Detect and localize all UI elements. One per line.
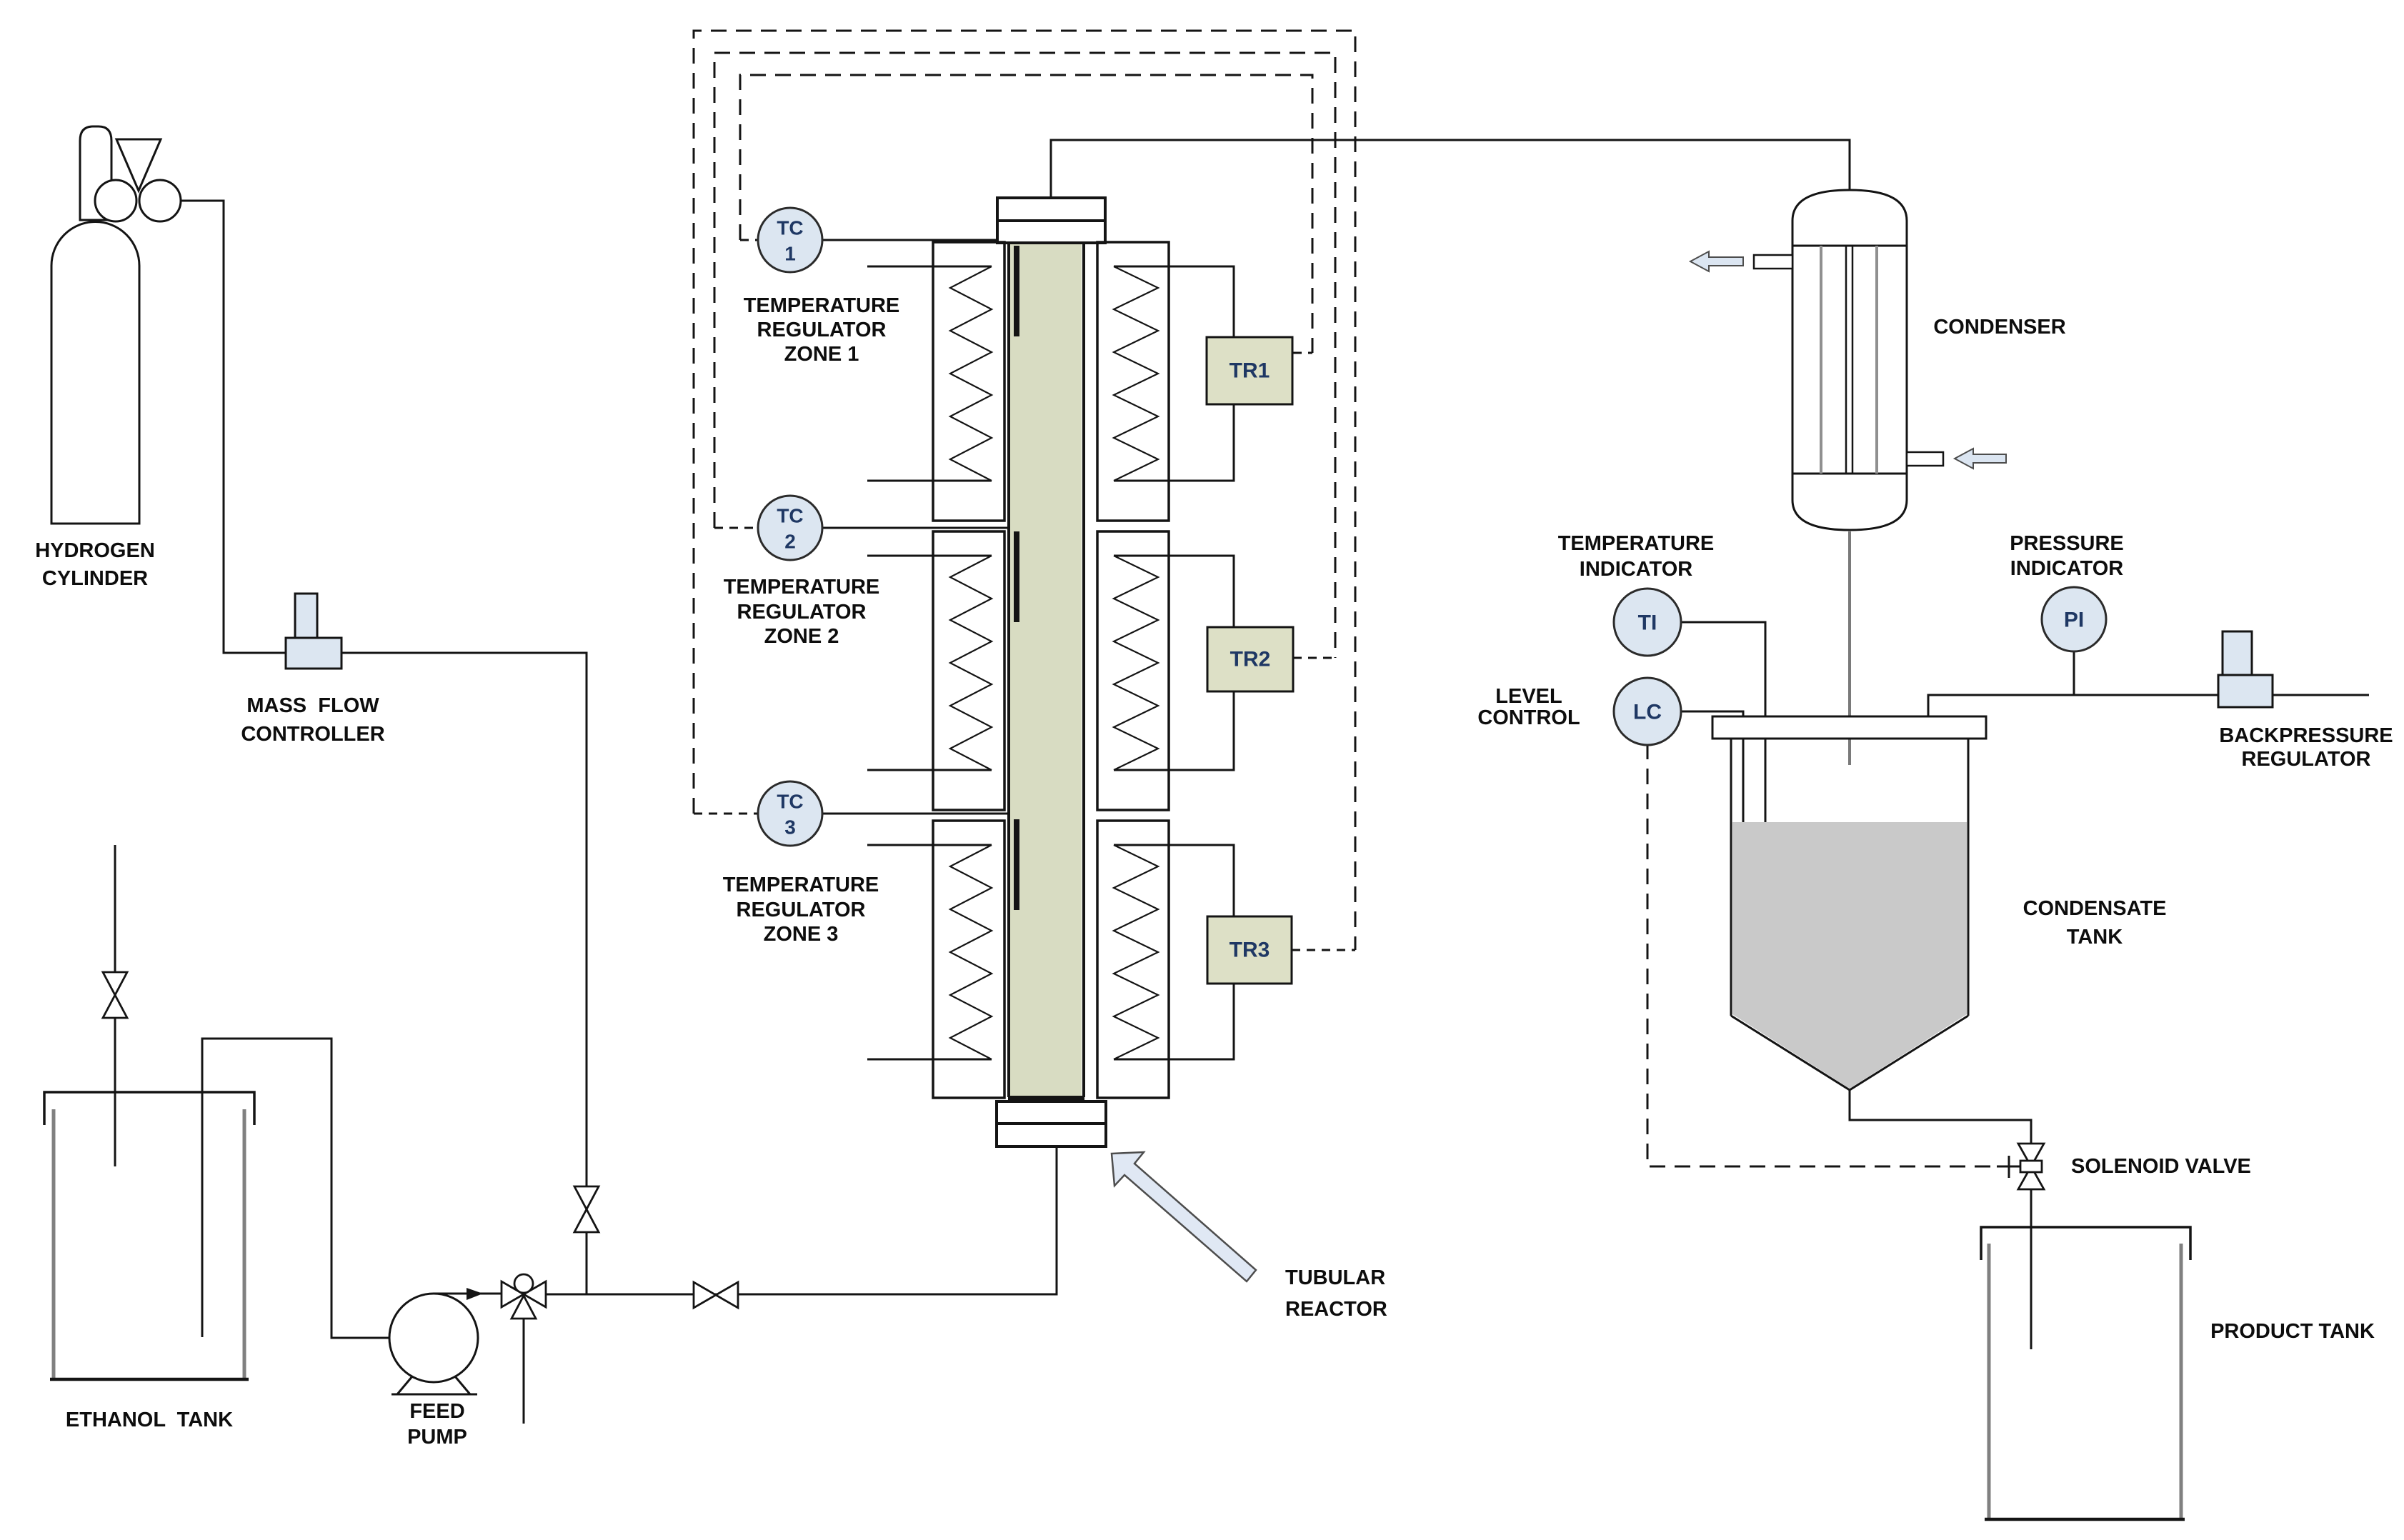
svg-text:PRODUCT TANK: PRODUCT TANK — [2210, 1320, 2375, 1343]
condenser shell — [1792, 190, 1907, 530]
product tank rim — [1981, 1227, 2190, 1260]
svg-text:MASS FLOW: MASS FLOW — [246, 694, 379, 717]
svg-text:TANK: TANK — [2067, 926, 2123, 949]
reactor tube filling (catalyst bed) — [1010, 243, 1082, 1097]
temperature regulator box TR1 — [1207, 337, 1292, 404]
arrowhead pump outlet — [467, 1288, 483, 1300]
svg-text:TC: TC — [777, 791, 803, 813]
condensate tank right wall — [1967, 739, 1970, 1016]
svg-text:PI: PI — [2064, 609, 2084, 632]
wire ethanol tank fill pipe — [114, 845, 116, 1166]
svg-text:LC: LC — [1633, 701, 1662, 724]
dashed stub TC2 — [714, 527, 758, 529]
wire LC dip tube — [1680, 711, 1743, 993]
furnace block zone2 left — [933, 531, 1004, 810]
heater leads zone1 left — [867, 266, 992, 268]
mass flow controller body — [286, 638, 341, 669]
svg-text:TR3: TR3 — [1230, 939, 1270, 962]
svg-text:REACTOR: REACTOR — [1285, 1298, 1387, 1321]
valve on feed line to reactor — [694, 1282, 738, 1308]
temperature regulator box TR3 — [1207, 916, 1292, 984]
condenser tube gray left — [1820, 246, 1822, 474]
wire PI stem — [2073, 651, 2075, 695]
svg-text:CYLINDER: CYLINDER — [42, 567, 148, 590]
svg-text:HYDROGEN: HYDROGEN — [35, 539, 155, 562]
furnace block zone3 left — [933, 821, 1004, 1098]
mass flow controller stem — [295, 594, 317, 638]
svg-text:TR2: TR2 — [1230, 648, 1271, 671]
heater leads zone1 right to TR1 — [1114, 266, 1234, 337]
reactor top cap — [997, 198, 1105, 243]
svg-text:REGULATOR: REGULATOR — [737, 601, 867, 624]
three-way valve top circle — [514, 1274, 533, 1293]
thermocouple circle TC1 — [758, 208, 822, 272]
svg-text:TC: TC — [777, 505, 803, 527]
heater leads zone2 right to TR2 — [1114, 556, 1234, 627]
svg-text:ZONE 1: ZONE 1 — [784, 343, 859, 366]
valve on hydrogen line — [574, 1186, 599, 1232]
svg-text:REGULATOR: REGULATOR — [2242, 748, 2371, 771]
condenser coolant inlet nozzle — [1907, 452, 1943, 466]
condenser tube gray right — [1875, 246, 1878, 474]
svg-text:TC: TC — [777, 217, 803, 239]
wire pump drain below three-way valve — [523, 1319, 525, 1424]
thermocouple circle TC3 — [758, 781, 822, 846]
condensate tank cone — [1731, 1016, 1968, 1090]
furnace block zone3 right — [1097, 821, 1169, 1098]
svg-text:CONDENSER: CONDENSER — [1933, 316, 2065, 339]
svg-text:1: 1 — [784, 243, 796, 265]
heater leads zone3 left — [867, 844, 992, 846]
condensate tank lid — [1712, 716, 1986, 739]
dashed stub TC3 — [694, 813, 758, 815]
svg-text:INDICATOR: INDICATOR — [1580, 558, 1692, 581]
heater leads zone3 right to TR3 — [1114, 845, 1234, 916]
heater coil zone1 right — [1114, 266, 1158, 481]
wire reactor outlet to condenser — [1051, 140, 1850, 198]
svg-text:CONTROLLER: CONTROLLER — [241, 723, 384, 746]
wire three-way valve to reactor inlet — [546, 1146, 1057, 1294]
svg-text:BACKPRESSURE: BACKPRESSURE — [2219, 724, 2393, 747]
dashed control loop box TC3-TR3 (outer) — [694, 31, 1355, 950]
dashed stub TC1 — [740, 239, 758, 241]
wire condenser to condensate tank — [1848, 531, 1851, 765]
wire condensate tank outlet to solenoid valve — [1850, 1090, 2031, 1146]
feed pump base — [391, 1376, 477, 1394]
thermowell zone 2 — [1014, 531, 1019, 622]
three-way valve bottom port — [512, 1296, 536, 1319]
regulator gauge circle right — [139, 180, 181, 221]
cylinder regulator triangle — [116, 139, 161, 191]
dashed stub TR1 — [1293, 352, 1312, 354]
dashed stub TR3 — [1292, 949, 1355, 951]
svg-text:TI: TI — [1638, 611, 1657, 635]
wire TC1 to reactor — [822, 239, 999, 241]
svg-text:REGULATOR: REGULATOR — [757, 319, 887, 341]
dashed line LC to solenoid valve — [1647, 744, 1997, 1166]
product tank right wall — [2180, 1244, 2183, 1518]
backpressure regulator body — [2218, 675, 2273, 707]
heater coil zone3 left — [950, 845, 992, 1059]
svg-text:3: 3 — [784, 816, 796, 839]
svg-text:TR1: TR1 — [1230, 359, 1270, 383]
hydrogen cylinder body — [51, 222, 139, 524]
svg-text:TEMPERATURE: TEMPERATURE — [723, 874, 879, 896]
svg-text:2: 2 — [784, 531, 796, 553]
svg-text:LEVEL: LEVEL — [1495, 685, 1562, 708]
reactor tube bottom seal — [1008, 1096, 1084, 1101]
product tank left wall — [1987, 1244, 1991, 1518]
regulator gauge circle left — [95, 180, 136, 221]
svg-text:ZONE 3: ZONE 3 — [764, 923, 839, 946]
reactor bottom cap — [997, 1101, 1106, 1146]
furnace block zone1 left — [933, 242, 1004, 521]
wire TC3 to reactor — [822, 813, 1009, 815]
svg-text:SOLENOID VALVE: SOLENOID VALVE — [2071, 1155, 2251, 1178]
condensate tank left wall — [1730, 739, 1732, 1016]
valve on ethanol fill line — [103, 972, 127, 1018]
condenser tube black pair — [1845, 246, 1847, 474]
svg-text:CONDENSATE: CONDENSATE — [2023, 897, 2167, 920]
wire TC2 to reactor — [822, 527, 1009, 529]
reactor tube left wall — [1007, 243, 1010, 1097]
coolant outlet arrow — [1690, 251, 1743, 271]
furnace block zone2 right — [1097, 531, 1169, 810]
dashed stub TR2 — [1293, 657, 1335, 659]
ethanol tank rim — [44, 1092, 254, 1125]
backpressure regulator stem — [2223, 631, 2252, 675]
svg-text:REGULATOR: REGULATOR — [737, 899, 866, 921]
svg-text:TEMPERATURE: TEMPERATURE — [724, 576, 880, 599]
thermowell zone 3 — [1014, 819, 1019, 910]
wire pump outlet to three-way valve — [434, 1293, 502, 1295]
wire TI thermowell — [1680, 622, 1765, 984]
level control circle LC — [1614, 678, 1681, 745]
ethanol tank right wall — [243, 1109, 246, 1378]
svg-text:PRESSURE: PRESSURE — [2010, 532, 2124, 555]
dashed control loop box TC1-TR1 (inner) — [740, 75, 1312, 353]
thermowell zone 1 — [1014, 246, 1019, 336]
hydrogen cylinder valve stem — [80, 126, 111, 220]
heater coil zone1 left — [950, 266, 992, 481]
condensate tank liquid — [1732, 822, 1967, 1089]
temperature indicator circle TI — [1614, 589, 1681, 656]
svg-text:TEMPERATURE: TEMPERATURE — [1558, 532, 1715, 555]
heater coil zone3 right — [1114, 845, 1158, 1059]
temperature regulator box TR2 — [1207, 627, 1293, 691]
svg-text:PUMP: PUMP — [407, 1426, 467, 1449]
svg-text:ETHANOL TANK: ETHANOL TANK — [66, 1409, 233, 1431]
wire solenoid valve to product tank — [2030, 1187, 2033, 1349]
svg-text:TUBULAR: TUBULAR — [1285, 1266, 1385, 1289]
coolant inlet arrow — [1955, 449, 2006, 469]
condenser bottom tubesheet — [1792, 473, 1907, 475]
pressure indicator circle PI — [2042, 587, 2106, 651]
svg-text:CONTROL: CONTROL — [1477, 706, 1580, 729]
wire ethanol tank outlet to pump — [202, 1039, 426, 1338]
ethanol tank bottom — [50, 1378, 249, 1381]
wire gas header to backpressure regulator — [1928, 695, 2369, 717]
product tank bottom — [1985, 1518, 2185, 1521]
condenser top tubesheet — [1792, 245, 1907, 247]
wire MFC to feed junction — [341, 653, 587, 1294]
heater coil zone2 right — [1114, 556, 1158, 770]
svg-text:INDICATOR: INDICATOR — [2010, 557, 2123, 580]
thermocouple circle TC2 — [758, 496, 822, 560]
heater coil zone2 left — [950, 556, 992, 770]
solenoid valve actuator plus — [1997, 1156, 2020, 1178]
three-way valve bowtie — [502, 1281, 546, 1319]
heater leads zone2 left — [867, 555, 992, 557]
big arrow pointing to tubular reactor — [1112, 1152, 1256, 1281]
arrowhead into pump — [419, 1330, 439, 1346]
ethanol tank left wall — [52, 1109, 56, 1378]
wire H2 cylinder to mass flow controller — [181, 201, 286, 653]
feed pump circle — [389, 1294, 478, 1382]
dashed control loop box TC2-TR2 (middle) — [714, 53, 1335, 658]
furnace block zone1 right — [1097, 242, 1169, 521]
svg-text:FEED: FEED — [409, 1400, 464, 1423]
svg-text:ZONE 2: ZONE 2 — [764, 625, 839, 648]
condenser coolant outlet nozzle — [1754, 255, 1792, 269]
svg-text:TEMPERATURE: TEMPERATURE — [744, 294, 900, 317]
solenoid valve — [2018, 1144, 2044, 1189]
reactor tube right wall — [1082, 243, 1085, 1097]
